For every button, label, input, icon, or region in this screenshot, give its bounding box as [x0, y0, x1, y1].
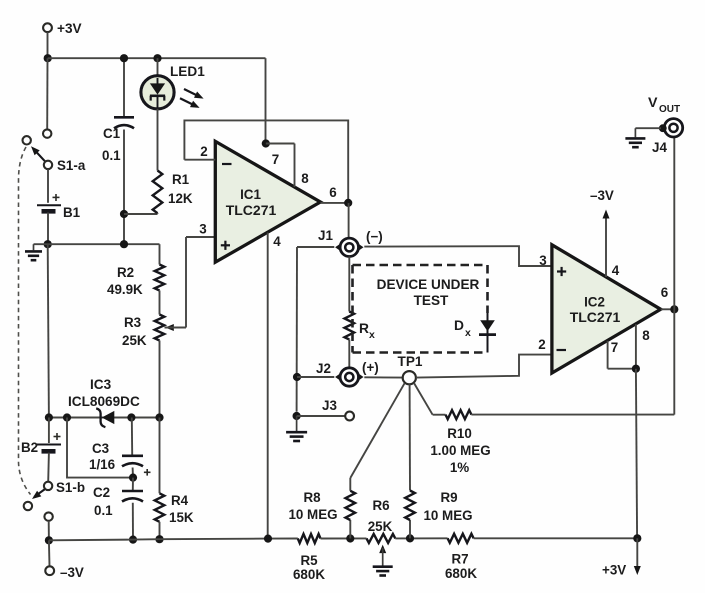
node J3: [293, 412, 301, 420]
wire R3 to IC3 row: [159, 341, 161, 418]
svg-text:7: 7: [611, 340, 618, 355]
svg-text:10 MEG: 10 MEG: [423, 508, 472, 523]
resistor R2: [155, 265, 165, 291]
svg-text:S1-a: S1-a: [57, 158, 86, 173]
wire C1 bottom: [123, 130, 125, 245]
resistor RX: [345, 312, 355, 340]
wire S1-a to B1: [47, 169, 49, 203]
node rail C2: [129, 536, 137, 544]
svg-text:25K: 25K: [122, 333, 147, 348]
wire LED to R1: [157, 109, 159, 171]
terminal S1-a lever end: [23, 136, 31, 144]
wire jog to R1 bottom: [124, 213, 158, 215]
svg-text:2: 2: [200, 144, 207, 159]
svg-text:1/16: 1/16: [89, 457, 115, 472]
terminal S1-a fixed contact: [43, 129, 51, 137]
node B1 bottom: [44, 240, 52, 248]
wire J2 left: [297, 376, 334, 378]
battery B1: [37, 204, 61, 206]
svg-text:12K: 12K: [168, 191, 193, 206]
wire J4 ground stub: [635, 127, 661, 129]
svg-text:R2: R2: [117, 265, 134, 280]
ground R6: [382, 565, 384, 566]
feedback loop IC1 pin2 to pin6: [184, 120, 348, 202]
C3 parallel box: [67, 418, 133, 478]
node rail R4: [155, 535, 163, 543]
svg-text:x: x: [369, 329, 375, 341]
svg-text:R9: R9: [440, 490, 457, 505]
svg-text:J4: J4: [652, 140, 667, 155]
svg-text:8: 8: [642, 328, 650, 343]
wire B1 to gnd rail: [47, 213, 49, 245]
ground J3: [296, 416, 298, 431]
svg-text:6: 6: [329, 185, 336, 200]
svg-text:D: D: [454, 318, 464, 333]
resistor R7: [448, 534, 474, 543]
svg-text:0.1: 0.1: [94, 503, 113, 518]
svg-text:LED1: LED1: [170, 64, 205, 79]
svg-text:3: 3: [539, 253, 546, 268]
svg-text:10 MEG: 10 MEG: [288, 507, 337, 522]
capacitor C1: [114, 116, 134, 119]
svg-text:R7: R7: [451, 552, 468, 567]
svg-text:TLC271: TLC271: [226, 202, 277, 218]
resistor R1: [153, 171, 163, 214]
wire TP1 to R8 slant: [350, 383, 404, 478]
IC2 minus: [557, 349, 567, 351]
svg-text:C2: C2: [93, 485, 110, 500]
resistor R10: [446, 410, 472, 419]
IC1 pin7 node: [262, 139, 270, 147]
terminal S1-a moving contact: [44, 161, 52, 169]
resistor R6 trimmer: [367, 534, 396, 543]
svg-text:R8: R8: [303, 490, 321, 505]
wire IC1 out to J1: [348, 203, 350, 238]
wire pin4 IC1 to -3V rail: [267, 233, 269, 539]
svg-text:J2: J2: [316, 361, 331, 376]
wire R4 top: [159, 418, 161, 494]
svg-text:6: 6: [661, 285, 668, 300]
node LED top: [153, 54, 161, 62]
resistor R3 potentiometer: [155, 315, 165, 341]
wire zener row: [49, 417, 160, 419]
capacitor C3: [122, 454, 143, 457]
node top-left junction: [44, 54, 52, 62]
wire R8 bottom: [349, 520, 351, 539]
svg-text:R5: R5: [300, 553, 318, 568]
terminal S1-b top contact: [44, 482, 52, 490]
LED LED1: [141, 76, 174, 109]
node zener row C3: [127, 413, 135, 421]
battery B2: [37, 444, 61, 446]
terminal -3V: [45, 566, 54, 575]
wire J2 right to TP1: [364, 376, 403, 378]
terminal +3V: [43, 23, 52, 32]
svg-text:R4: R4: [171, 493, 189, 508]
svg-text:R: R: [359, 321, 369, 336]
J4 lug: [659, 124, 667, 132]
svg-text:+3V: +3V: [602, 563, 626, 578]
wire bottom rail left: [49, 539, 298, 541]
svg-text:C3: C3: [92, 441, 109, 456]
node pin7/8 IC2: [632, 365, 640, 373]
IC1 minus: [222, 163, 232, 165]
resistor R4: [155, 493, 165, 522]
wire top rail: [48, 57, 266, 59]
wire J3: [297, 415, 346, 417]
switch S1-a lever: [33, 149, 46, 163]
ground main: [33, 244, 35, 250]
wire C3-C2: [132, 478, 134, 490]
svg-text:1%: 1%: [450, 460, 469, 475]
svg-text:2: 2: [538, 337, 545, 352]
svg-text:C1: C1: [103, 126, 121, 141]
wire TP1 to IC2 pin2: [416, 355, 552, 378]
wire Vout rail: [673, 137, 675, 414]
wire R10 left: [433, 414, 446, 416]
svg-text:TP1: TP1: [398, 354, 423, 369]
svg-text:+3V: +3V: [57, 21, 82, 36]
R6 wiper: [379, 545, 386, 554]
wire TP1 to R9: [409, 384, 411, 490]
svg-text:R10: R10: [447, 426, 472, 441]
svg-text:25K: 25K: [368, 519, 393, 534]
wire rail R6-R7: [395, 537, 447, 539]
DUT box dashed: [353, 264, 488, 267]
connector J1: [335, 243, 341, 251]
testpoint TP1: [403, 371, 416, 384]
svg-text:x: x: [465, 327, 471, 339]
switch S1-b lever: [34, 489, 44, 496]
wire top rail drop to IC1 pin7 node: [265, 58, 267, 143]
connector J2: [335, 373, 341, 381]
node IC1 output: [344, 199, 352, 207]
svg-text:0.1: 0.1: [102, 148, 121, 163]
op-amp IC1: [215, 141, 320, 262]
svg-text:7: 7: [272, 152, 279, 167]
wire pins7-8 to +3V: [636, 369, 637, 539]
wire +3V arrow: [636, 538, 638, 567]
wire B2 to S1-b: [47, 453, 50, 482]
svg-text:4: 4: [612, 263, 620, 278]
wire R2 top stub: [159, 244, 161, 264]
svg-text:R3: R3: [124, 315, 141, 330]
wire left rail x297: [296, 247, 298, 412]
wire R2-R3: [159, 291, 161, 315]
wire C3 top: [131, 418, 133, 455]
resistor RX wire top: [348, 257, 350, 312]
wire pin7: [266, 143, 295, 145]
dashed gang link S1: [19, 147, 31, 495]
svg-text:15K: 15K: [169, 510, 194, 525]
svg-text:R1: R1: [172, 172, 190, 187]
svg-text:IC3: IC3: [90, 377, 112, 392]
node zener row B2: [45, 413, 53, 421]
terminal S1-b bottom contact: [44, 512, 52, 520]
wire J1 right to IC2 pin3: [364, 246, 552, 266]
node +3V bottom: [633, 534, 641, 542]
svg-text:3: 3: [199, 222, 206, 237]
svg-text:1.00 MEG: 1.00 MEG: [430, 443, 490, 458]
node zener row R4col: [155, 413, 163, 421]
resistor R9: [405, 491, 415, 521]
node C1 top rail: [120, 54, 128, 62]
diode DX: [487, 313, 489, 353]
terminal S1-b lever end: [24, 502, 32, 510]
wire S1-b to rail: [48, 521, 50, 540]
op-amp IC2: [552, 245, 661, 373]
wire S1-a top contact feed: [46, 58, 48, 129]
wire B2 top: [48, 418, 50, 444]
ground J4: [634, 128, 636, 137]
svg-text:680K: 680K: [445, 566, 477, 581]
wire J1 left: [297, 246, 334, 248]
svg-text:(−): (−): [366, 229, 383, 244]
svg-text:8: 8: [301, 171, 309, 186]
svg-text:DEVICE UNDER: DEVICE UNDER: [377, 277, 480, 292]
node C1 gnd rail: [120, 240, 128, 248]
node zener row left: [63, 413, 71, 421]
wire R10 to Vout rail: [471, 414, 674, 416]
svg-text:TEST: TEST: [414, 293, 449, 308]
resistor R5: [298, 534, 321, 543]
wire B1 node to zener row: [48, 244, 49, 417]
wire C2 bottom: [132, 503, 134, 540]
svg-text:S1-b: S1-b: [56, 480, 85, 495]
IC2 plus: [557, 270, 566, 272]
connector J4: [664, 119, 682, 137]
wire LED feed: [157, 58, 159, 76]
IC1 plus: [221, 244, 230, 246]
LED arrows: [184, 89, 200, 97]
resistor R8: [346, 491, 356, 520]
svg-text:4: 4: [273, 234, 281, 249]
wire -3V terminal: [48, 540, 51, 566]
svg-text:49.9K: 49.9K: [107, 282, 143, 297]
svg-text:TLC271: TLC271: [570, 309, 621, 325]
wire pin4 IC2 to -3V arrow: [605, 215, 607, 277]
svg-text:(+): (+): [362, 360, 379, 375]
wire C3 bottom: [132, 468, 134, 478]
node rail R8: [346, 534, 354, 542]
node rail pin4: [264, 535, 272, 543]
svg-text:B2: B2: [21, 440, 38, 455]
wire mid gnd rail y244: [34, 243, 160, 245]
R3 wiper arm: [165, 324, 174, 331]
svg-text:OUT: OUT: [659, 104, 680, 115]
svg-text:B1: B1: [63, 205, 81, 220]
terminal J3: [345, 412, 354, 421]
wire TP1 to R10 slant: [414, 383, 433, 415]
node IC2 output: [670, 305, 678, 313]
wire R1 bottom stub: [157, 212, 159, 215]
svg-text:J3: J3: [322, 398, 337, 413]
node rail B2: [45, 536, 53, 544]
node C1/R1 row: [120, 210, 128, 218]
wire rail R7 to +3V: [474, 537, 638, 539]
node rail R9: [406, 534, 414, 542]
wire R9 bottom: [409, 520, 411, 538]
wire IC1 output: [320, 202, 348, 204]
node J2 left rail: [293, 373, 301, 381]
capacitor C2: [122, 490, 143, 493]
svg-text:–3V: –3V: [590, 188, 614, 203]
wire pin8 IC2: [635, 324, 637, 369]
svg-text:–3V: –3V: [60, 565, 84, 580]
wire +3V terminal to top rail: [47, 32, 49, 58]
svg-text:R6: R6: [372, 498, 389, 513]
svg-text:ICL8069DC: ICL8069DC: [68, 394, 140, 409]
wire C1 top: [123, 58, 125, 116]
node C3 bottom: [129, 474, 137, 482]
IC1 pin2 stub: [184, 159, 215, 161]
wire pin7 IC2: [607, 341, 609, 369]
wire rail R5-R6: [321, 537, 367, 539]
wire IC2 output: [661, 308, 675, 310]
zener diode IC3: [102, 411, 115, 424]
svg-text:V: V: [648, 95, 658, 111]
svg-text:IC2: IC2: [584, 295, 605, 310]
wire RX bottom: [348, 340, 350, 368]
svg-text:IC1: IC1: [240, 187, 261, 202]
svg-text:680K: 680K: [293, 567, 325, 582]
svg-text:J1: J1: [318, 228, 333, 243]
wire R4 bottom: [159, 522, 161, 539]
